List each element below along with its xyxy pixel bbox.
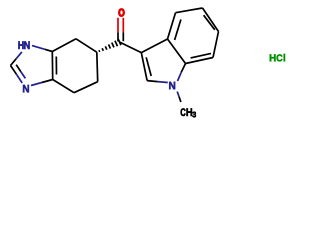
- bond N1-C7a (imidazole, blue half): [32, 46, 45, 50]
- bond C3=C2 indole inner line: [146, 57, 151, 76]
- bond C4=C3a benzo main: [168, 13, 176, 39]
- bond C7-C6 (cyclohexane): [76, 39, 97, 52]
- bond C6=C5 benzo inner line: [204, 15, 215, 30]
- salt label HCl: [270, 54, 285, 62]
- bond C7a=C7 indole main: [186, 58, 214, 64]
- bond C3=C2 indole main: [141, 53, 147, 81]
- bond C3a-C7a indole fusion: [168, 39, 186, 64]
- bond C7-C6 benzo: [213, 32, 219, 58]
- bond C2=N3 main (black half): [11, 66, 17, 75]
- atom label HN (imidazole N1): [18, 41, 29, 49]
- bond N3-C3a (blue half): [31, 83, 42, 86]
- bond C7a=C7 indole inner line: [191, 53, 211, 58]
- atom label N (imidazole N3): [23, 85, 29, 93]
- atom label CH3 (N-methyl): [181, 108, 196, 117]
- bond C2-N1 indole (black half): [147, 81, 157, 82]
- bond C2=N3 inner line (black half): [16, 65, 21, 72]
- bond C=O double line 2 (red half): [122, 18, 124, 33]
- bond C2-N1 indole (blue half): [158, 81, 168, 84]
- bond N3-C3a (black half): [42, 80, 53, 83]
- bond C3-C3a indole: [141, 39, 167, 53]
- atom label O (carbonyl): [119, 9, 125, 17]
- atom label N (indole N1): [169, 82, 175, 89]
- bond N1-C7a indole (black half): [181, 64, 185, 73]
- bond N1-CH3 (blue half): [177, 92, 179, 97]
- bond C=O double line 2 (black half): [122, 32, 124, 41]
- bond C4=C3a benzo inner line: [175, 20, 181, 41]
- bond C3a=C7a fusion inner line: [55, 57, 57, 75]
- bond N1-C7a (imidazole, black half): [45, 49, 53, 51]
- bond C3a=C7a fusion main: [51, 52, 53, 80]
- bond N1-C7a indole (blue half): [178, 72, 182, 81]
- bond C5-C4 benzo: [176, 8, 203, 13]
- bond C(=O)-C3 (to indole): [120, 42, 142, 53]
- bond C=O double line 1 (red half): [117, 18, 119, 33]
- bond C=O double line 1 (black half): [117, 32, 119, 41]
- bond C6-C5 (cyclohexane): [96, 52, 99, 81]
- bond C7a-C7 (cyclohexane): [52, 39, 76, 52]
- bond N1-C2 (imidazole, black half): [11, 59, 17, 66]
- bond C5-C4 (cyclohexane): [74, 82, 98, 93]
- bond C2=N3 main (blue half): [16, 74, 22, 83]
- bond C6=C5 benzo main: [203, 8, 219, 32]
- bond C4-C3a (cyclohexane): [53, 80, 74, 93]
- hashed wedge bond C6-C(=O): [99, 39, 121, 52]
- bond N1-CH3 (black half): [179, 97, 181, 102]
- bond N1-C2 (imidazole, blue half): [16, 52, 22, 59]
- bond C2=N3 inner line (blue half): [21, 72, 26, 79]
